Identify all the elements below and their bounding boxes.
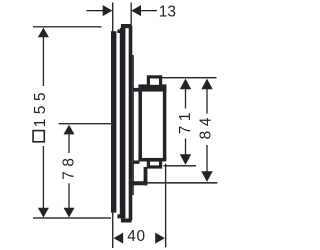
svg-text:13: 13: [159, 4, 176, 21]
svg-text:40: 40: [127, 228, 146, 245]
dim13: right arrow: [131, 5, 141, 16]
dim155: bottom ext line: [33, 217, 111, 218]
svg-text:155: 155: [32, 88, 49, 127]
dim78: bottom arrow: [64, 208, 75, 218]
dim155: top arrow: [38, 28, 49, 38]
handle top cap thick band: [138, 84, 166, 91]
svg-text:71: 71: [177, 108, 194, 134]
handle bottom step: [148, 160, 160, 167]
dim78: line upper: [68, 134, 69, 153]
dim71: bottom arrow: [180, 154, 191, 165]
label square of square155: [33, 131, 44, 142]
dim155: line upper: [43, 37, 44, 86]
plate mid top step cap B: [117, 30, 125, 34]
neck tick bottom: [134, 161, 140, 164]
dim71: top arrow: [180, 79, 191, 90]
L-piece horizontal: [129, 181, 148, 185]
dim78: line lower: [68, 183, 69, 208]
plate back bar A: [111, 31, 116, 212]
handle top step: [148, 77, 160, 87]
dim155: top ext line: [33, 26, 102, 27]
dim78: top ext line: [59, 123, 113, 124]
dim13: right ext line: [131, 3, 132, 25]
dim84: line upper: [206, 89, 207, 114]
plate front bar C: [129, 26, 133, 221]
wall line: [112, 3, 113, 249]
dim71/84: top ext line: [162, 77, 217, 78]
dim40: right arrow: [155, 233, 165, 244]
dim71: bottom ext line: [164, 165, 197, 166]
dim71: line lower: [185, 139, 186, 155]
svg-text:78: 78: [61, 153, 78, 179]
plate front top cap: [121, 24, 132, 28]
plate mid bar B: [120, 28, 126, 218]
dim84: bottom arrow: [201, 171, 212, 182]
dim155: bottom arrow: [38, 208, 49, 218]
dim13: left arrow: [103, 5, 113, 16]
neck tick top: [134, 88, 140, 92]
dim84: bottom ext line: [147, 182, 218, 184]
plate front bar C outer sliver: [132, 55, 134, 195]
dim40: right ext line: [165, 164, 166, 248]
svg-text:84: 84: [197, 113, 214, 139]
plate front bottom cap: [121, 219, 132, 223]
thin dimension lines: [33, 3, 217, 248]
plate mid bottom step cap B: [117, 214, 125, 218]
dim40: left arrow: [114, 233, 124, 244]
dim71: line upper: [185, 89, 186, 109]
L-piece vertical: [144, 167, 148, 185]
dim155: line lower: [43, 146, 44, 208]
dim78: top arrow: [64, 125, 75, 135]
dim84: line lower: [206, 145, 207, 172]
handle main body: [140, 86, 164, 160]
dim13: right tail line: [141, 10, 157, 11]
dim13: left tail line: [87, 10, 104, 11]
dim84: top arrow: [201, 79, 212, 90]
